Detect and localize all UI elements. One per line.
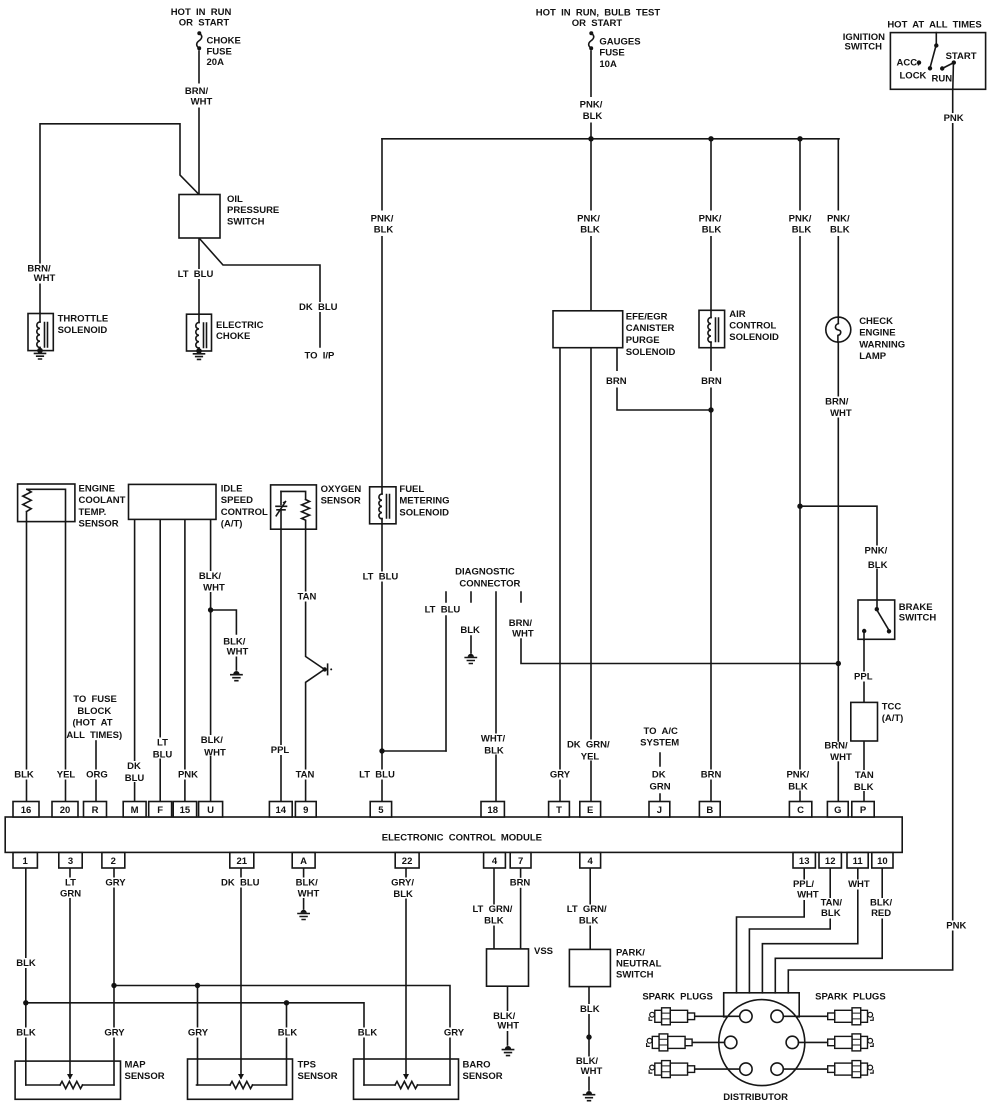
label BRN pin 7 bbox=[509, 878, 532, 889]
svg-text:START: START bbox=[946, 51, 977, 62]
distributor post bottom-left bbox=[740, 1063, 752, 1075]
svg-text:BLK: BLK bbox=[702, 225, 722, 236]
ECM pin P bbox=[852, 802, 874, 818]
svg-text:DK GRN/: DK GRN/ bbox=[567, 740, 610, 751]
svg-text:LT: LT bbox=[157, 738, 168, 749]
svg-text:SENSOR: SENSOR bbox=[298, 1071, 338, 1082]
wire BLK diagnostic connector to ground bbox=[470, 592, 472, 653]
wire DK GRN/YEL EFE/EGR to ECM pin E bbox=[590, 348, 592, 802]
label TO FUSE BLOCK (HOT AT ALL TIMES) bbox=[66, 694, 122, 741]
svg-text:BLOCK: BLOCK bbox=[77, 706, 111, 717]
svg-text:LT BLU: LT BLU bbox=[359, 770, 395, 781]
ECM pin 12 bbox=[819, 853, 841, 869]
svg-text:BLK: BLK bbox=[14, 770, 34, 781]
ECM pin 22 bbox=[395, 853, 419, 869]
svg-text:SOLENOID: SOLENOID bbox=[399, 507, 449, 518]
EFE/EGR canister purge solenoid box bbox=[553, 311, 623, 348]
label PNK/BLK brake tap bbox=[862, 546, 890, 571]
label BLK pin 16 bbox=[13, 770, 35, 781]
svg-text:18: 18 bbox=[487, 805, 498, 816]
svg-text:TPS: TPS bbox=[298, 1060, 316, 1071]
wire GRY/BLK ECM pin 22 to BARO sensor wiper bbox=[405, 869, 407, 1079]
svg-text:G: G bbox=[834, 805, 841, 816]
wire DK BLU idle speed control to ECM pin M bbox=[134, 519, 136, 801]
ECM pin 3 bbox=[59, 853, 82, 869]
label GRY MAP right bbox=[103, 1028, 126, 1039]
svg-text:4: 4 bbox=[588, 856, 594, 867]
label IDLE SPEED CONTROL (A/T) bbox=[221, 484, 268, 530]
svg-text:WHT: WHT bbox=[204, 748, 226, 759]
svg-text:SENSOR: SENSOR bbox=[321, 496, 361, 507]
ground below diagnostic BLK bbox=[465, 654, 476, 664]
label BRN air control wire bbox=[700, 371, 723, 388]
svg-text:PPL: PPL bbox=[271, 745, 290, 756]
label DK BLU bbox=[299, 302, 338, 313]
spark plug right top bbox=[828, 1008, 874, 1025]
svg-text:B: B bbox=[706, 805, 713, 816]
engine coolant temp sensor bbox=[18, 484, 75, 522]
svg-text:BLK: BLK bbox=[16, 958, 36, 969]
svg-text:11: 11 bbox=[853, 856, 864, 867]
label EFE/EGR CANISTER PURGE SOLENOID bbox=[626, 312, 676, 358]
svg-text:FUEL: FUEL bbox=[399, 484, 424, 495]
svg-text:14: 14 bbox=[276, 805, 287, 816]
node bus-pin C drop bbox=[797, 136, 802, 141]
ECM pin F bbox=[149, 802, 172, 818]
svg-text:CONNECTOR: CONNECTOR bbox=[459, 579, 520, 590]
svg-text:7: 7 bbox=[518, 856, 523, 867]
svg-text:DK BLU: DK BLU bbox=[221, 878, 260, 889]
wire spark plug right top bbox=[783, 1015, 829, 1017]
label TAN oxygen wire bbox=[295, 592, 318, 603]
ECM pin B bbox=[699, 802, 720, 818]
svg-text:TAN: TAN bbox=[297, 592, 316, 603]
label GRY TPS left bbox=[187, 1028, 210, 1039]
wire spark plug left bottom bbox=[695, 1068, 740, 1070]
svg-text:OR START: OR START bbox=[572, 18, 623, 29]
svg-text:BLK: BLK bbox=[830, 225, 850, 236]
wire PNK/BLK bus bbox=[382, 138, 839, 140]
node bus-air control bbox=[708, 136, 713, 141]
svg-text:SOLENOID: SOLENOID bbox=[729, 332, 779, 343]
svg-text:BLK: BLK bbox=[583, 111, 603, 122]
label BARO SENSOR bbox=[463, 1060, 503, 1083]
ECM pin 2 bbox=[102, 853, 125, 869]
oxygen sensor bbox=[271, 485, 317, 529]
node BLK pin1 branch bbox=[23, 1000, 28, 1005]
ground below VSS bbox=[502, 1046, 513, 1056]
label THROTTLE SOLENOID bbox=[58, 314, 109, 336]
label BLK BARO left bbox=[357, 1028, 379, 1039]
MAP sensor bbox=[15, 1061, 120, 1099]
svg-text:DK BLU: DK BLU bbox=[299, 302, 338, 313]
svg-text:PPL: PPL bbox=[854, 672, 873, 683]
svg-text:21: 21 bbox=[237, 856, 248, 867]
svg-text:PARK/: PARK/ bbox=[616, 948, 645, 959]
svg-text:ACC.: ACC. bbox=[897, 58, 920, 69]
svg-text:ALL TIMES): ALL TIMES) bbox=[66, 730, 122, 741]
label TAN pin 9 bbox=[294, 770, 317, 781]
svg-text:BRN: BRN bbox=[606, 376, 627, 387]
svg-text:FUSE: FUSE bbox=[207, 47, 232, 58]
spark plug right bottom bbox=[828, 1061, 874, 1078]
label LT BLU fuel metering wire bbox=[363, 572, 399, 583]
svg-text:DIAGNOSTIC: DIAGNOSTIC bbox=[455, 567, 515, 578]
wire BLK/WHT idle speed control to ECM pin U bbox=[210, 519, 212, 801]
svg-text:GRY: GRY bbox=[105, 877, 126, 888]
svg-text:TO A/C: TO A/C bbox=[644, 726, 678, 737]
label BLK/WHT park/neutral ground bbox=[576, 1056, 605, 1077]
label GRY pin 2 bbox=[104, 877, 127, 888]
svg-text:HOT IN RUN: HOT IN RUN bbox=[171, 7, 232, 18]
wire LT BLU diagnostic connector stub bbox=[445, 592, 447, 751]
oxygen sensor TAN connector symbol bbox=[323, 664, 333, 674]
wire TAN oxygen sensor to ECM pin 9 bbox=[306, 529, 325, 801]
label IGNITION SWITCH bbox=[843, 32, 885, 53]
svg-text:SPEED: SPEED bbox=[221, 495, 253, 506]
label LT BLU choke wire bbox=[178, 269, 214, 280]
svg-text:SWITCH: SWITCH bbox=[227, 216, 265, 227]
label DK GRN/YEL pin E bbox=[566, 740, 611, 763]
label DIAGNOSTIC CONNECTOR bbox=[455, 567, 520, 590]
svg-text:DK: DK bbox=[652, 770, 666, 781]
svg-text:GAUGES: GAUGES bbox=[599, 37, 640, 48]
wire LT BLU oil pressure switch to electric choke bbox=[198, 238, 200, 314]
node BLK TPS branch bbox=[284, 1000, 289, 1005]
svg-text:AIR: AIR bbox=[729, 309, 746, 320]
svg-text:ELECTRIC: ELECTRIC bbox=[216, 320, 264, 331]
spark plug left middle bbox=[647, 1034, 693, 1051]
label BLK/WHT pin A bbox=[293, 877, 321, 899]
svg-text:BLK: BLK bbox=[374, 225, 394, 236]
svg-text:BRN/: BRN/ bbox=[824, 741, 848, 752]
label ORG pin R bbox=[86, 770, 109, 781]
svg-text:GRY: GRY bbox=[444, 1028, 465, 1039]
distributor post bottom-right bbox=[771, 1063, 783, 1075]
wire PNK/BLK drop to fuel metering solenoid bbox=[381, 139, 383, 487]
label DK BLU pin 21 bbox=[221, 878, 260, 889]
air control solenoid bbox=[699, 310, 725, 347]
svg-text:LT GRN/: LT GRN/ bbox=[567, 904, 607, 915]
label BLK diagnostic bbox=[459, 625, 481, 636]
svg-text:ENGINE: ENGINE bbox=[859, 328, 895, 339]
svg-text:BLK: BLK bbox=[792, 225, 812, 236]
svg-text:PNK/: PNK/ bbox=[580, 100, 603, 111]
svg-text:PPL/: PPL/ bbox=[793, 879, 814, 890]
label CHOKE FUSE 20A bbox=[207, 36, 241, 69]
svg-text:SOLENOID: SOLENOID bbox=[58, 325, 108, 336]
svg-text:LT GRN/: LT GRN/ bbox=[472, 904, 512, 915]
label BRN/WHT fuse wire bbox=[183, 84, 213, 108]
svg-text:METERING: METERING bbox=[399, 496, 449, 507]
label CHECK ENGINE WARNING LAMP bbox=[859, 316, 905, 362]
label LT BLU pin 5 bbox=[359, 770, 396, 781]
wire PNK idle speed control to ECM pin 15 bbox=[184, 519, 186, 801]
wire BLK/WHT VSS to ground bbox=[507, 985, 509, 1045]
svg-text:PNK/: PNK/ bbox=[699, 214, 722, 225]
svg-text:BLK/: BLK/ bbox=[201, 735, 224, 746]
label WHT/BLK pin 18 bbox=[479, 734, 509, 757]
svg-text:BRN: BRN bbox=[510, 878, 531, 889]
svg-text:CONTROL: CONTROL bbox=[221, 507, 268, 518]
node bus-gauges fuse bbox=[588, 136, 593, 141]
ECM pin U bbox=[199, 802, 223, 818]
wire PNK/BLK gauges fuse to bus bbox=[590, 51, 592, 139]
node PNK/BLK brake tap bbox=[797, 504, 802, 509]
ECM box bbox=[5, 817, 902, 852]
svg-text:J: J bbox=[657, 805, 662, 816]
svg-text:NEUTRAL: NEUTRAL bbox=[616, 959, 662, 970]
svg-text:A: A bbox=[300, 856, 307, 867]
svg-text:5: 5 bbox=[378, 805, 384, 816]
svg-text:PRESSURE: PRESSURE bbox=[227, 205, 279, 216]
svg-text:SOLENOID: SOLENOID bbox=[626, 347, 676, 358]
svg-text:WARNING: WARNING bbox=[859, 339, 905, 350]
wire GRY net to TPS and BARO sensors bbox=[114, 986, 450, 1086]
label PNK/BLK drop lamp bbox=[824, 211, 852, 237]
label BLK pin 1 wire bbox=[15, 958, 37, 969]
svg-text:BLK: BLK bbox=[358, 1028, 378, 1039]
ECM pin 21 bbox=[230, 853, 254, 869]
svg-text:CHOKE: CHOKE bbox=[207, 36, 241, 47]
svg-text:COOLANT: COOLANT bbox=[79, 495, 126, 506]
label PPL/WHT pin 13 bbox=[791, 879, 821, 901]
svg-text:SPARK PLUGS: SPARK PLUGS bbox=[642, 991, 713, 1002]
svg-text:LAMP: LAMP bbox=[859, 351, 887, 362]
label DK GRN pin J bbox=[646, 770, 673, 793]
svg-text:PNK: PNK bbox=[178, 770, 198, 781]
wire LT GRN ECM pin 3 to MAP sensor wiper bbox=[69, 869, 71, 1079]
svg-text:YEL: YEL bbox=[581, 752, 600, 763]
svg-text:ORG: ORG bbox=[86, 770, 108, 781]
fuse CHOKE FUSE 20A bbox=[197, 31, 202, 50]
label PPL pin 14 bbox=[269, 745, 291, 756]
wire branch from oil pressure switch to throttle solenoid bbox=[40, 124, 199, 314]
label BRN pin B bbox=[700, 770, 723, 781]
distributor post top-left bbox=[740, 1010, 752, 1022]
label BLK/RED pin 10 bbox=[868, 898, 896, 920]
ECM pin J bbox=[649, 802, 670, 818]
label PNK distributor wire bbox=[944, 921, 969, 932]
svg-text:BLU: BLU bbox=[153, 750, 173, 761]
wire PNK/BLK tap to brake switch bbox=[800, 506, 877, 600]
svg-text:GRY/: GRY/ bbox=[391, 878, 414, 889]
wire PNK/BLK drop to ECM pin C bbox=[799, 139, 801, 802]
svg-text:PNK: PNK bbox=[944, 113, 964, 124]
svg-text:(HOT AT: (HOT AT bbox=[72, 718, 112, 729]
brake switch bbox=[858, 600, 895, 640]
check engine warning lamp bbox=[826, 317, 851, 342]
svg-text:WHT: WHT bbox=[512, 628, 534, 639]
svg-text:BLK/: BLK/ bbox=[296, 877, 319, 888]
label HOT IN RUN, BULB TEST OR START bbox=[536, 8, 661, 30]
wire BLK ECM pin 1 to MAP sensor bbox=[25, 869, 27, 1086]
label BRN/WHT diagnostic bbox=[506, 618, 536, 640]
wire BRN/WHT from choke fuse to oil pressure switch bbox=[198, 51, 200, 195]
ECM pin E bbox=[580, 802, 601, 818]
svg-text:YEL: YEL bbox=[57, 770, 76, 781]
wire PNK/BLK drop to EFE/EGR solenoid bbox=[590, 139, 592, 311]
wire BRN air control solenoid to ECM pin B bbox=[710, 348, 712, 802]
wire BLK net to TPS and BARO sensors bbox=[26, 1003, 364, 1085]
wire BRN EFE/EGR to junction bbox=[617, 348, 711, 410]
label BRN/WHT pin G bbox=[823, 741, 852, 764]
idle speed control box bbox=[129, 484, 217, 519]
svg-text:4: 4 bbox=[492, 856, 498, 867]
svg-text:LT BLU: LT BLU bbox=[363, 572, 399, 583]
svg-text:TCC: TCC bbox=[882, 702, 902, 713]
ECM pin 16 bbox=[13, 802, 39, 818]
ECM pin C bbox=[789, 802, 811, 818]
label DK BLU pin M bbox=[122, 761, 147, 784]
svg-text:BLK: BLK bbox=[460, 625, 480, 636]
svg-text:BLK: BLK bbox=[16, 1028, 36, 1039]
svg-text:20: 20 bbox=[60, 805, 71, 816]
svg-text:CHOKE: CHOKE bbox=[216, 331, 250, 342]
wire LT BLU fuel metering solenoid to ECM pin 5 bbox=[382, 524, 446, 802]
svg-text:WHT: WHT bbox=[203, 583, 225, 594]
svg-text:SENSOR: SENSOR bbox=[463, 1071, 503, 1082]
svg-text:GRY: GRY bbox=[188, 1028, 209, 1039]
wire WHT/BLK diagnostic connector to ECM pin 18 bbox=[495, 592, 497, 802]
wire BRN ECM pin 7 to VSS bbox=[520, 869, 522, 950]
label LT GRN pin 3 bbox=[57, 877, 84, 899]
svg-text:FUSE: FUSE bbox=[599, 48, 624, 59]
svg-text:E: E bbox=[587, 805, 593, 816]
ECM pin 5 bbox=[370, 802, 391, 818]
wire spark plug right middle bbox=[799, 1041, 829, 1043]
svg-text:LT BLU: LT BLU bbox=[178, 269, 214, 280]
svg-text:BLK: BLK bbox=[393, 889, 413, 900]
ECM pin 4b bbox=[580, 853, 601, 869]
ECM pin 4 bbox=[484, 853, 506, 869]
ECM pin T bbox=[549, 802, 570, 818]
svg-text:BLK: BLK bbox=[278, 1028, 298, 1039]
label BLK/WHT VSS ground bbox=[493, 1011, 520, 1032]
svg-text:WHT: WHT bbox=[298, 888, 320, 899]
ground below ISC BLK/WHT branch bbox=[231, 671, 242, 681]
node LT BLU diagnostic branch bbox=[379, 748, 384, 753]
svg-text:BLK: BLK bbox=[579, 916, 599, 927]
label PNK/BLK fuse wire bbox=[577, 97, 605, 123]
label BLK/WHT ISC wire upper bbox=[196, 571, 226, 594]
svg-text:15: 15 bbox=[180, 805, 191, 816]
svg-text:PNK/: PNK/ bbox=[789, 214, 812, 225]
svg-text:TO FUSE: TO FUSE bbox=[73, 694, 117, 705]
svg-text:16: 16 bbox=[21, 805, 32, 816]
svg-text:BLK: BLK bbox=[580, 225, 600, 236]
svg-text:HOT AT ALL TIMES: HOT AT ALL TIMES bbox=[887, 20, 981, 31]
svg-text:BRN/: BRN/ bbox=[509, 618, 533, 629]
svg-text:13: 13 bbox=[799, 856, 810, 867]
wire BLK/RED ECM pin 10 to distributor bbox=[775, 869, 882, 993]
ECM pin 15 bbox=[173, 802, 196, 818]
svg-text:SWITCH: SWITCH bbox=[845, 42, 883, 53]
svg-text:PNK/: PNK/ bbox=[827, 214, 850, 225]
ECM pin M bbox=[123, 802, 146, 818]
svg-text:M: M bbox=[131, 805, 139, 816]
label PNK/BLK drop EFE bbox=[575, 211, 603, 237]
svg-text:(A/T): (A/T) bbox=[882, 713, 904, 724]
svg-text:SYSTEM: SYSTEM bbox=[640, 738, 679, 749]
ECM pin 20 bbox=[52, 802, 78, 818]
spark plug left bottom bbox=[649, 1061, 695, 1078]
label TPS SENSOR bbox=[298, 1060, 338, 1083]
wire PPL oxygen sensor to ECM pin 14 bbox=[280, 529, 282, 801]
svg-text:BLK: BLK bbox=[484, 916, 504, 927]
node GRY pin2 branch bbox=[111, 983, 116, 988]
wire WHT ECM pin 11 to distributor bbox=[762, 869, 857, 993]
wire BRN/WHT diagnostic connector to lamp wire bbox=[521, 592, 838, 664]
svg-text:WHT: WHT bbox=[497, 1021, 519, 1032]
wire DK BLU ECM pin 21 to TPS sensor wiper bbox=[240, 869, 242, 1079]
svg-text:T: T bbox=[556, 805, 562, 816]
node GRY TPS branch bbox=[195, 983, 200, 988]
svg-text:IDLE: IDLE bbox=[221, 484, 243, 495]
svg-text:OR START: OR START bbox=[179, 18, 230, 29]
wire spark plug left middle bbox=[692, 1041, 725, 1043]
svg-text:WHT: WHT bbox=[848, 879, 870, 890]
ground below ECM pin A bbox=[298, 910, 309, 920]
label PNK/BLK drop pin C bbox=[786, 211, 814, 237]
ECM pin 11 bbox=[847, 853, 868, 869]
ECM pin 7 bbox=[510, 853, 531, 869]
label PNK/BLK pin C bbox=[784, 770, 812, 793]
label GRY pin T bbox=[549, 770, 572, 781]
svg-text:BLK: BLK bbox=[868, 560, 888, 571]
label PARK/NEUTRAL SWITCH bbox=[616, 948, 662, 981]
label PNK ignition wire bbox=[941, 113, 966, 124]
svg-text:EFE/EGR: EFE/EGR bbox=[626, 312, 668, 323]
svg-text:TAN: TAN bbox=[855, 770, 874, 781]
svg-text:R: R bbox=[92, 805, 99, 816]
ECM pin 14 bbox=[269, 802, 292, 818]
wire PPL/WHT ECM pin 13 to distributor bbox=[737, 869, 805, 993]
label AIR CONTROL SOLENOID bbox=[729, 309, 779, 343]
ground below throttle solenoid bbox=[35, 353, 46, 359]
svg-text:9: 9 bbox=[303, 805, 308, 816]
svg-text:BLK: BLK bbox=[821, 908, 841, 919]
svg-text:PNK: PNK bbox=[946, 921, 966, 932]
ground below park/neutral switch bbox=[584, 1091, 595, 1101]
svg-text:OIL: OIL bbox=[227, 194, 243, 205]
TPS sensor bbox=[188, 1059, 293, 1099]
label PNK/BLK drop air control bbox=[696, 211, 724, 237]
svg-text:LT BLU: LT BLU bbox=[425, 605, 461, 616]
svg-text:DISTRIBUTOR: DISTRIBUTOR bbox=[723, 1092, 788, 1103]
svg-text:TAN/: TAN/ bbox=[821, 898, 843, 909]
svg-text:LOCK: LOCK bbox=[900, 71, 927, 82]
BARO sensor bbox=[354, 1059, 459, 1099]
label BRN EFE wire bbox=[605, 371, 628, 388]
ECM pin R bbox=[84, 802, 107, 818]
label PNK/BLK drop fuel metering bbox=[368, 211, 396, 237]
label LT GRN/BLK pin 4 bbox=[470, 904, 516, 927]
svg-text:10A: 10A bbox=[599, 59, 617, 70]
svg-text:WHT: WHT bbox=[581, 1066, 603, 1077]
spark plug right middle bbox=[828, 1034, 874, 1051]
label BRAKE SWITCH bbox=[899, 602, 937, 623]
label TAN BLK pin P bbox=[853, 770, 876, 793]
svg-text:22: 22 bbox=[402, 856, 413, 867]
svg-text:WHT: WHT bbox=[797, 890, 819, 901]
svg-text:BLK/: BLK/ bbox=[199, 571, 222, 582]
wire LT GRN/BLK ECM pin 4 to park/neutral switch bbox=[589, 869, 591, 950]
wire spark plug left top bbox=[695, 1015, 740, 1017]
svg-text:PNK/: PNK/ bbox=[371, 214, 394, 225]
svg-text:ELECTRONIC CONTROL MODULE: ELECTRONIC CONTROL MODULE bbox=[382, 833, 542, 844]
wire LT BLU idle speed control to ECM pin F bbox=[159, 519, 161, 801]
